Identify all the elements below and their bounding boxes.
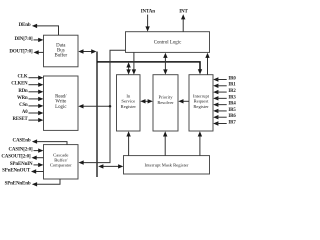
svg-text:IR2: IR2 (228, 89, 236, 94)
svg-text:RDn: RDn (18, 89, 28, 94)
block: In Service Register (117, 75, 141, 131)
svg-text:SPnENnEnb: SPnENnEnb (5, 181, 31, 186)
svg-text:IR3: IR3 (228, 95, 236, 100)
wire: rail tee to Read/Write Logic (82, 105, 110, 107)
svg-text:CASIN[2:0]: CASIN[2:0] (8, 148, 33, 153)
svg-text:DOUT[7:0]: DOUT[7:0] (9, 49, 33, 54)
wire+label: IR6 input (213, 115, 218, 119)
svg-text:DIN[7:0]: DIN[7:0] (15, 37, 33, 42)
arrow: Interrupt Mask Register to Interrupt Request Register (199, 134, 201, 155)
block: Interrupt Mask Register (124, 156, 210, 174)
svg-text:INT: INT (179, 10, 188, 15)
svg-text:CSn: CSn (19, 103, 28, 108)
arrow: Control Logic to In Service Register (133, 52, 135, 71)
arrow: Control Logic to Priority Resolver (bidirectional) (164, 56, 166, 72)
arrow: internal bus to Interrupt Mask Register (bidirectional) (102, 165, 120, 167)
internal bus vertical (96, 52, 98, 178)
block: Data Bus Buffer (44, 35, 79, 67)
arrow: Interrupt Mask Register to Priority Resolver (164, 134, 166, 155)
block: Control Logic (126, 32, 210, 53)
svg-text:CASEnb: CASEnb (13, 139, 31, 144)
wire: CASEnb from Cascade Buffer top (36, 142, 67, 145)
arrow: internal bus to In Service Register (bidirectional) (128, 65, 130, 71)
arrow: Interrupt Request Register to Control Logic (207, 56, 209, 75)
svg-text:WRn: WRn (17, 96, 28, 101)
svg-text:IR5: IR5 (228, 108, 236, 113)
arrow: Interrupt Mask Register to In Service Register (128, 134, 130, 155)
svg-text:Control Logic: Control Logic (154, 40, 182, 45)
svg-text:IR7: IR7 (228, 120, 236, 125)
arrow: In Service Register to Priority Resolver (bidirectional) (143, 100, 150, 102)
svg-text:Read/WriteLogic: Read/WriteLogic (55, 94, 67, 109)
wire+label: IR4 input (213, 102, 218, 106)
svg-text:SPnENnOUT: SPnENnOUT (2, 168, 31, 173)
svg-text:IR4: IR4 (228, 102, 236, 107)
svg-text:A0: A0 (22, 110, 28, 115)
svg-text:RESET: RESET (13, 117, 29, 122)
svg-text:IR1: IR1 (228, 83, 236, 88)
svg-text:CLKEN: CLKEN (11, 82, 28, 87)
wire: INT out of Control Logic (182, 18, 184, 32)
svg-text:IR6: IR6 (228, 114, 236, 119)
wire+label: IR5 input (213, 109, 218, 113)
wire+label: IR0 input (213, 77, 218, 81)
svg-text:INTAn: INTAn (141, 10, 156, 15)
wire+label: IR1 input (213, 84, 218, 88)
wire+label: IR7 input (213, 121, 218, 125)
svg-text:Interrupt Mask Register: Interrupt Mask Register (145, 163, 189, 168)
svg-text:SPnENnIN: SPnENnIN (10, 162, 33, 167)
internal bus horizontal + corner down into IRR top (97, 62, 200, 71)
junction dot on rail (109, 105, 112, 108)
wire: Control Logic left edge to vertical rail, down to Cascade Buffer (82, 50, 126, 162)
arrow: Interrupt Request Register to Priority Resolver (182, 100, 190, 102)
wire: INTAn into Control Logic (147, 15, 149, 29)
svg-text:CASOUT[2:0]: CASOUT[2:0] (1, 155, 31, 160)
block: Cascade Buffer/Comparator (44, 145, 79, 179)
wire+label: IR2 input (213, 90, 218, 94)
wire: SPnENnEnb from Cascade Buffer bottom (36, 179, 60, 184)
block: Read/Write Logic (44, 76, 79, 130)
wire+label: IR3 input (213, 96, 218, 100)
svg-text:InterruptRequestRegister: InterruptRequestRegister (193, 93, 210, 108)
svg-text:DEnb: DEnb (19, 23, 31, 28)
svg-text:PriorityResolver: PriorityResolver (157, 95, 174, 105)
block: Priority Resolver (153, 75, 178, 131)
svg-text:IR0: IR0 (228, 76, 236, 81)
wire: DEnb from Data Bus Buffer top (36, 26, 58, 35)
svg-text:CLK: CLK (18, 75, 28, 80)
arrow: Data Bus Buffer to internal bus (bidirectional) (82, 51, 93, 53)
block: Interrupt Request Register (189, 75, 213, 131)
